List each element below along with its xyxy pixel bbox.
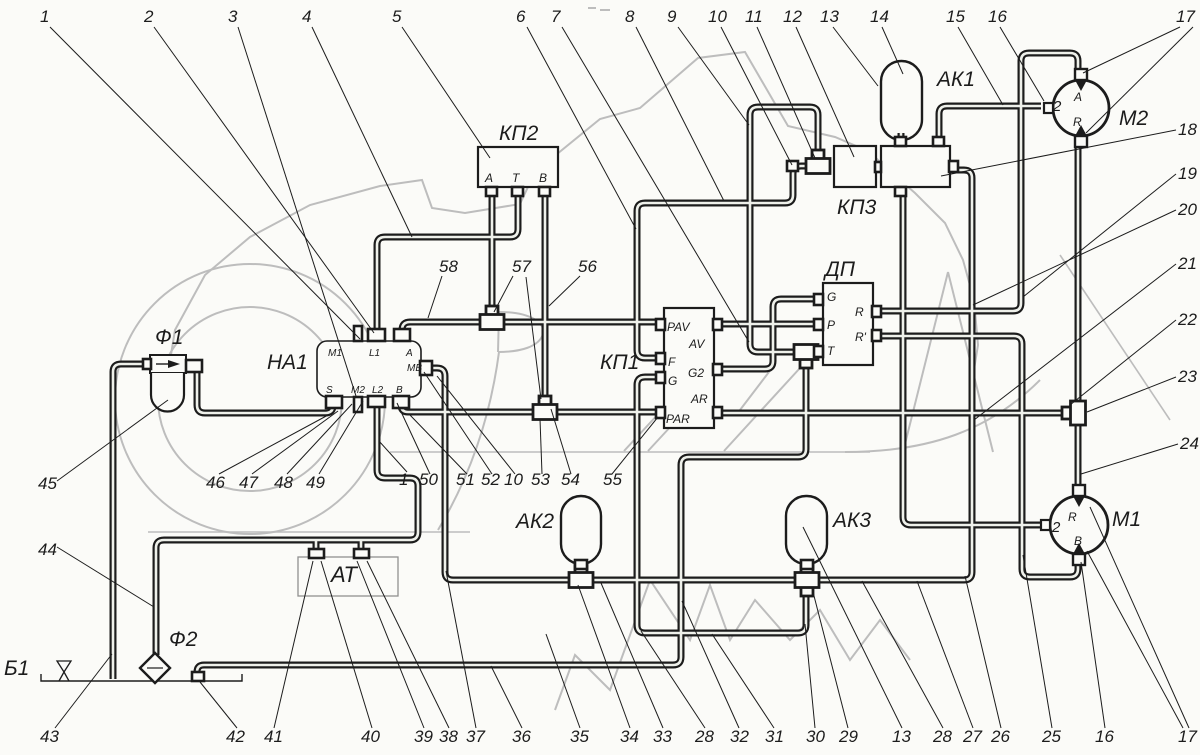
- svg-text:27: 27: [962, 727, 982, 746]
- svg-text:11: 11: [745, 7, 763, 26]
- svg-text:19: 19: [1178, 164, 1197, 183]
- svg-text:A: A: [405, 348, 413, 359]
- svg-text:AV: AV: [688, 337, 705, 351]
- svg-text:16: 16: [1095, 727, 1114, 746]
- svg-text:G2: G2: [688, 366, 704, 380]
- svg-text:47: 47: [239, 473, 258, 492]
- svg-text:39: 39: [414, 727, 433, 746]
- svg-text:7: 7: [551, 7, 561, 26]
- svg-text:2: 2: [1052, 98, 1062, 115]
- svg-text:21: 21: [1177, 254, 1197, 273]
- svg-text:55: 55: [603, 470, 622, 489]
- svg-text:33: 33: [653, 727, 672, 746]
- svg-text:G: G: [827, 290, 836, 304]
- svg-text:17: 17: [1176, 7, 1195, 26]
- svg-text:В: В: [539, 171, 547, 185]
- svg-text:КП2: КП2: [499, 122, 539, 145]
- svg-text:R: R: [855, 305, 864, 319]
- svg-text:Ф2: Ф2: [169, 628, 198, 651]
- svg-text:8: 8: [625, 7, 635, 26]
- svg-text:24: 24: [1179, 434, 1199, 453]
- svg-text:M1: M1: [328, 348, 342, 359]
- svg-text:4: 4: [302, 7, 311, 26]
- svg-text:58: 58: [439, 257, 458, 276]
- svg-text:38: 38: [439, 727, 458, 746]
- svg-text:PAR: PAR: [666, 412, 690, 426]
- svg-text:Ф1: Ф1: [155, 326, 183, 349]
- svg-text:М1: М1: [1112, 508, 1141, 531]
- svg-text:28: 28: [694, 727, 714, 746]
- svg-text:6: 6: [516, 7, 526, 26]
- svg-text:35: 35: [570, 727, 589, 746]
- svg-text:23: 23: [1177, 367, 1197, 386]
- svg-text:48: 48: [274, 473, 293, 492]
- svg-text:L2: L2: [372, 385, 384, 396]
- svg-text:2: 2: [143, 7, 154, 26]
- svg-text:15: 15: [946, 7, 965, 26]
- svg-text:28: 28: [932, 727, 952, 746]
- svg-text:АК1: АК1: [935, 68, 975, 91]
- svg-text:25: 25: [1041, 727, 1061, 746]
- svg-text:М2: М2: [1119, 107, 1148, 130]
- svg-text:R: R: [1068, 510, 1077, 524]
- svg-text:1: 1: [40, 7, 49, 26]
- svg-text:1: 1: [399, 470, 408, 489]
- svg-text:R: R: [1073, 115, 1082, 129]
- svg-text:14: 14: [870, 7, 889, 26]
- svg-text:22: 22: [1177, 310, 1197, 329]
- svg-text:20: 20: [1177, 200, 1197, 219]
- svg-text:G: G: [668, 374, 677, 388]
- svg-text:10: 10: [504, 470, 523, 489]
- svg-text:Б1: Б1: [4, 657, 29, 680]
- svg-text:R': R': [855, 330, 867, 344]
- svg-text:43: 43: [40, 727, 59, 746]
- svg-text:56: 56: [578, 257, 597, 276]
- svg-text:5: 5: [392, 7, 402, 26]
- svg-text:54: 54: [561, 470, 580, 489]
- svg-text:АК3: АК3: [831, 509, 871, 532]
- svg-text:9: 9: [667, 7, 677, 26]
- svg-text:34: 34: [620, 727, 639, 746]
- svg-text:S: S: [326, 385, 333, 396]
- svg-text:51: 51: [456, 470, 475, 489]
- svg-text:45: 45: [38, 474, 57, 493]
- svg-text:46: 46: [206, 473, 225, 492]
- svg-text:13: 13: [892, 727, 911, 746]
- svg-text:PAV: PAV: [667, 320, 690, 334]
- svg-text:37: 37: [466, 727, 485, 746]
- svg-text:32: 32: [730, 727, 749, 746]
- svg-text:40: 40: [361, 727, 380, 746]
- svg-text:41: 41: [264, 727, 283, 746]
- svg-text:F: F: [668, 355, 676, 369]
- svg-text:НА1: НА1: [267, 351, 308, 374]
- svg-text:17: 17: [1178, 727, 1197, 746]
- svg-text:10: 10: [708, 7, 727, 26]
- svg-text:49: 49: [306, 473, 325, 492]
- svg-text:В: В: [1074, 534, 1082, 548]
- svg-text:МВ: МВ: [407, 363, 422, 374]
- svg-text:52: 52: [481, 470, 500, 489]
- svg-text:АТ: АТ: [329, 562, 358, 587]
- svg-text:31: 31: [765, 727, 784, 746]
- svg-text:50: 50: [419, 470, 438, 489]
- svg-text:26: 26: [990, 727, 1010, 746]
- svg-text:P: P: [827, 318, 835, 332]
- svg-text:53: 53: [531, 470, 550, 489]
- svg-text:13: 13: [820, 7, 839, 26]
- svg-text:29: 29: [838, 727, 858, 746]
- svg-text:В: В: [396, 385, 403, 396]
- svg-text:16: 16: [988, 7, 1007, 26]
- svg-text:L1: L1: [369, 348, 380, 359]
- svg-text:36: 36: [512, 727, 531, 746]
- svg-text:30: 30: [806, 727, 825, 746]
- svg-text:42: 42: [226, 727, 245, 746]
- svg-text:АК2: АК2: [514, 510, 554, 533]
- svg-text:A: A: [1073, 90, 1082, 104]
- svg-text:18: 18: [1178, 120, 1197, 139]
- svg-text:ДП: ДП: [823, 258, 856, 281]
- svg-text:M2: M2: [351, 385, 365, 396]
- svg-text:КП1: КП1: [600, 351, 639, 374]
- svg-text:44: 44: [38, 540, 57, 559]
- svg-text:КП3: КП3: [837, 196, 877, 219]
- svg-text:12: 12: [783, 7, 802, 26]
- svg-text:57: 57: [512, 257, 531, 276]
- svg-text:3: 3: [228, 7, 238, 26]
- svg-text:2: 2: [1051, 519, 1061, 536]
- svg-text:A: A: [484, 171, 493, 185]
- svg-text:AR: AR: [690, 392, 708, 406]
